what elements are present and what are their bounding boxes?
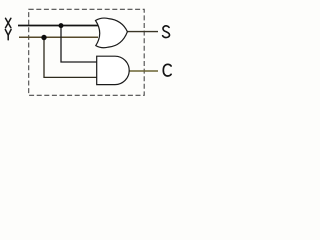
wire: X branch down to AND gate [61,26,97,63]
XOR gate U1 (sum) [96,18,128,48]
wire: input X horizontal [18,25,99,27]
junction dot on X wire [59,23,64,28]
wire: S output [127,31,158,33]
wire: input Y horizontal [19,36,98,38]
wire: Y branch down to AND gate [44,37,97,77]
background [0,0,176,105]
wire: C output [128,70,158,72]
dashed enclosure box [29,9,145,95]
AND gate U2 (carry) [97,56,129,84]
output label C [163,64,171,76]
output label S [163,26,170,38]
input label Y [5,30,11,40]
input label X [6,18,11,27]
junction dot on Y wire [41,35,46,40]
